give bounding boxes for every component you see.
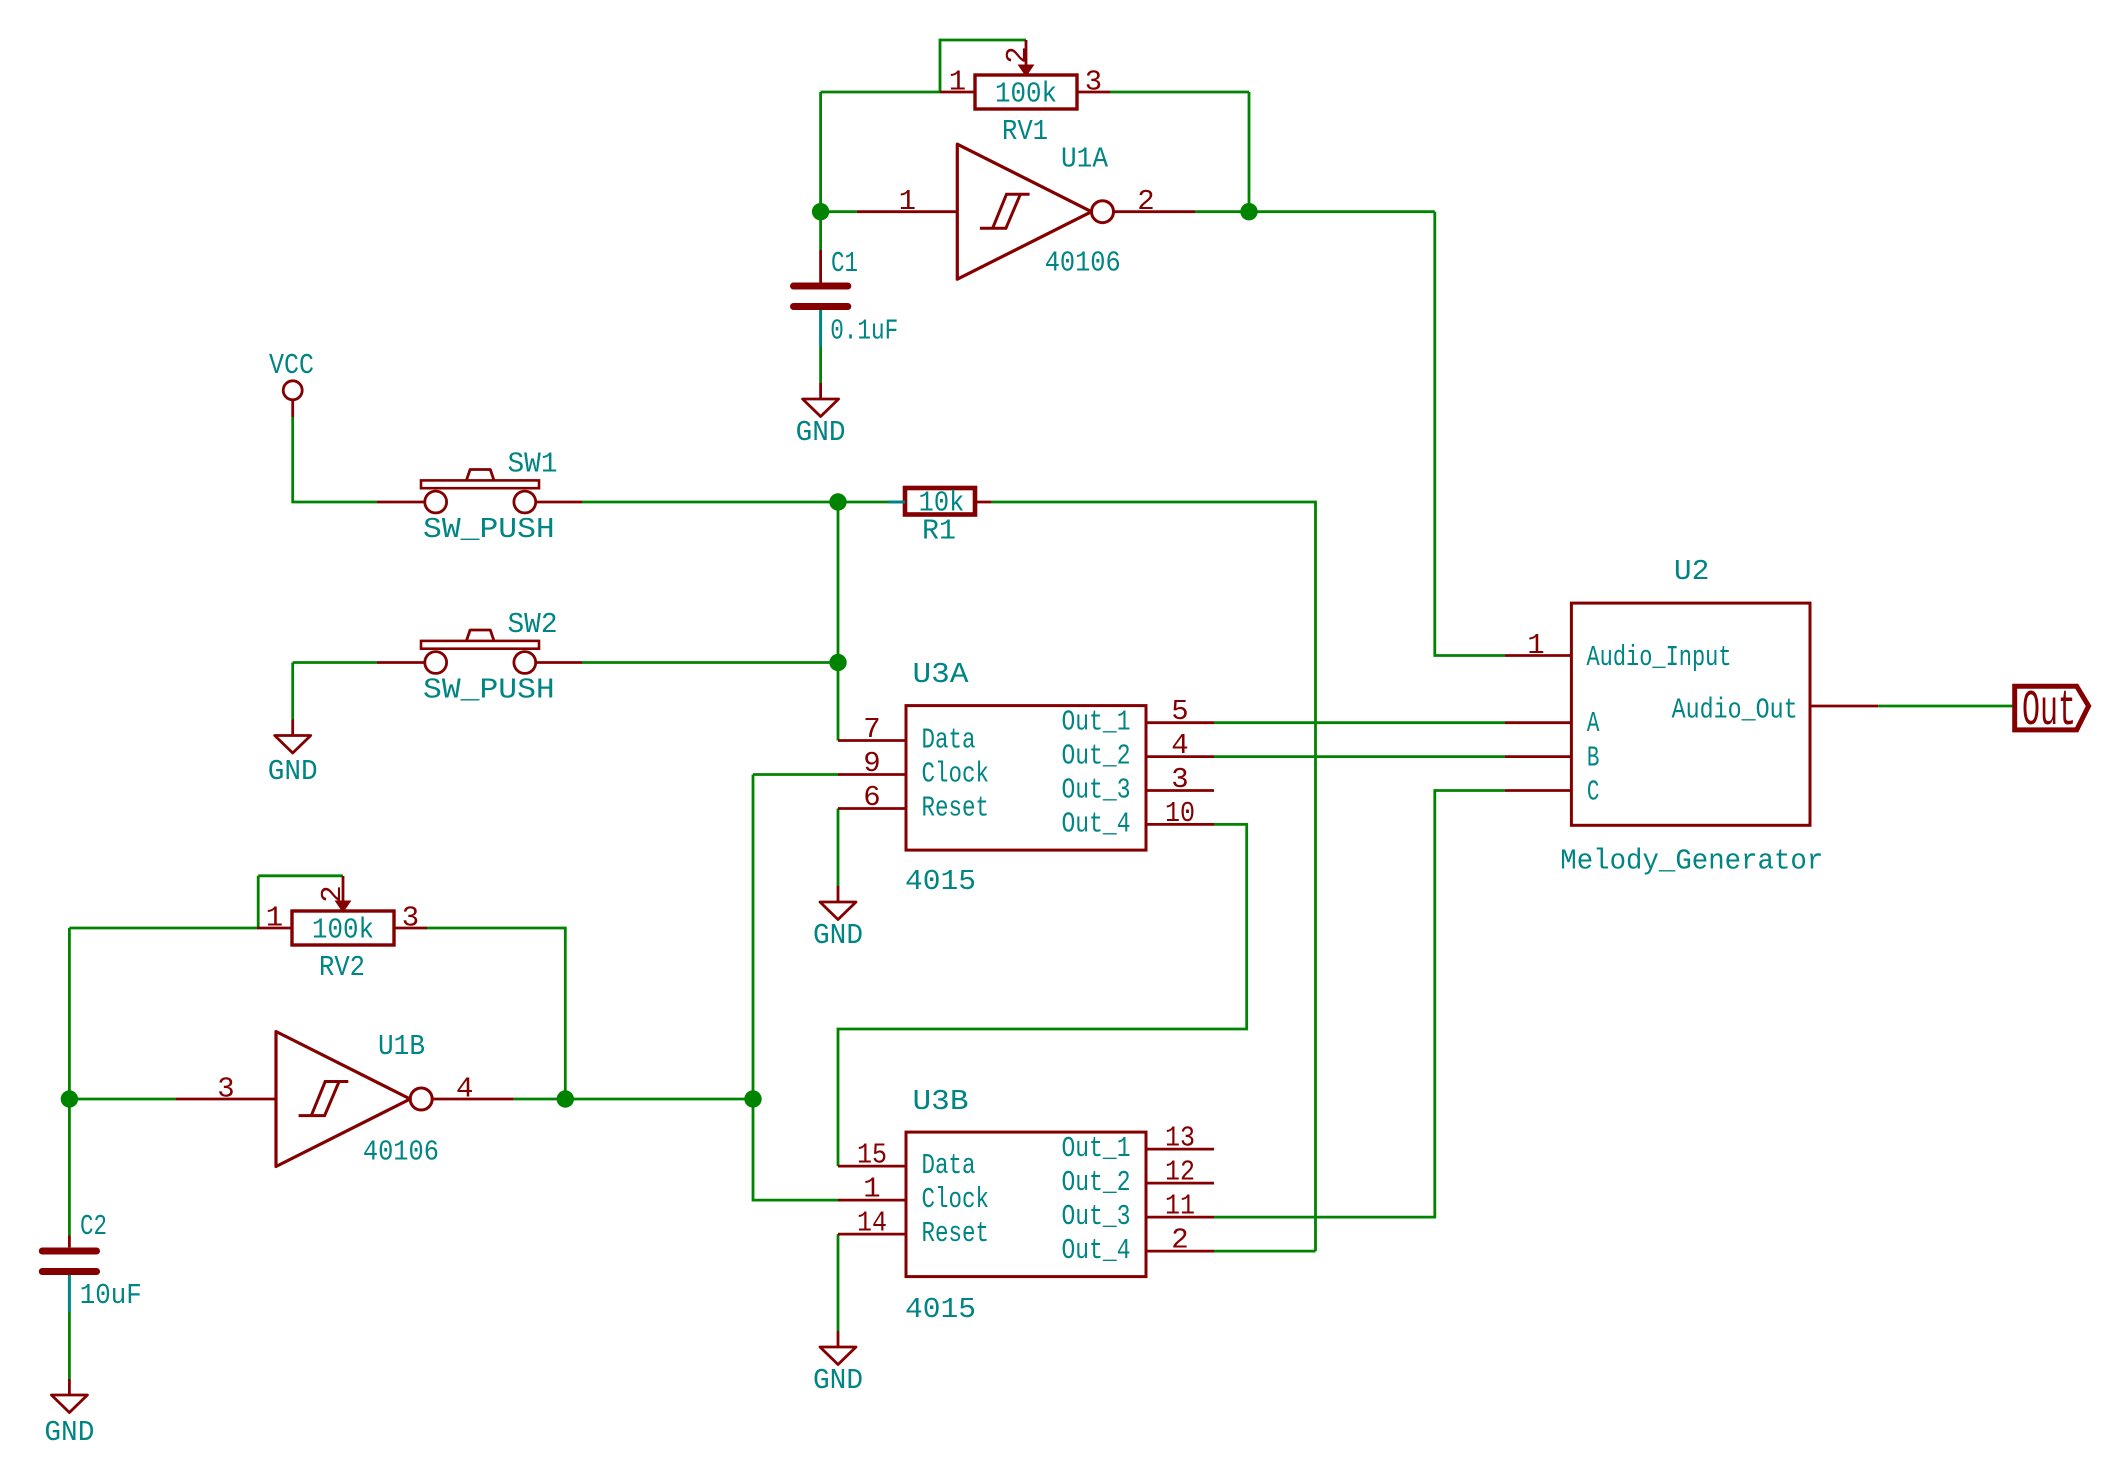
svg-text:B: B <box>1587 742 1600 775</box>
svg-text:1: 1 <box>863 1173 880 1206</box>
svg-text:13: 13 <box>1165 1122 1195 1155</box>
svg-text:Clock: Clock <box>922 758 990 791</box>
svg-text:3: 3 <box>217 1073 234 1106</box>
svg-text:11: 11 <box>1165 1190 1195 1223</box>
svg-text:SW1: SW1 <box>508 448 558 481</box>
svg-text:SW_PUSH: SW_PUSH <box>423 674 555 707</box>
svg-text:1: 1 <box>949 66 966 99</box>
svg-text:GND: GND <box>268 755 318 788</box>
svg-text:2: 2 <box>1171 1224 1188 1257</box>
svg-text:U1A: U1A <box>1061 143 1109 176</box>
svg-text:C1: C1 <box>831 247 858 280</box>
svg-text:Out_2: Out_2 <box>1062 740 1131 773</box>
svg-text:1: 1 <box>1527 629 1544 662</box>
svg-text:10uF: 10uF <box>80 1279 142 1312</box>
svg-text:6: 6 <box>863 781 880 814</box>
svg-text:A: A <box>1587 707 1600 740</box>
svg-text:VCC: VCC <box>269 349 314 382</box>
svg-text:1: 1 <box>266 902 283 935</box>
svg-text:U2: U2 <box>1674 555 1710 588</box>
svg-text:5: 5 <box>1171 695 1188 728</box>
svg-text:12: 12 <box>1165 1156 1195 1189</box>
svg-text:Out_1: Out_1 <box>1062 1132 1131 1165</box>
svg-text:Data: Data <box>922 1149 976 1182</box>
svg-text:100k: 100k <box>312 914 374 947</box>
svg-text:3: 3 <box>402 902 419 935</box>
svg-text:RV2: RV2 <box>319 951 365 984</box>
svg-text:U3B: U3B <box>913 1085 969 1118</box>
svg-text:Audio_Input: Audio_Input <box>1587 641 1732 674</box>
svg-text:GND: GND <box>44 1416 94 1449</box>
svg-text:7: 7 <box>863 713 880 746</box>
svg-text:1: 1 <box>899 185 916 218</box>
svg-text:C: C <box>1587 776 1600 809</box>
svg-text:U1B: U1B <box>378 1030 425 1063</box>
svg-text:40106: 40106 <box>363 1135 439 1168</box>
svg-text:Clock: Clock <box>922 1183 990 1216</box>
svg-text:2: 2 <box>1001 46 1034 63</box>
svg-text:SW_PUSH: SW_PUSH <box>423 513 555 546</box>
svg-text:9: 9 <box>863 747 880 780</box>
svg-text:GND: GND <box>813 1364 863 1397</box>
svg-text:R1: R1 <box>922 515 956 548</box>
svg-text:2: 2 <box>316 885 349 902</box>
svg-text:14: 14 <box>857 1207 887 1240</box>
svg-text:Out_4: Out_4 <box>1062 1234 1131 1267</box>
svg-text:40106: 40106 <box>1045 247 1121 280</box>
svg-text:Out: Out <box>2022 683 2076 740</box>
svg-text:10: 10 <box>1165 797 1195 830</box>
svg-text:Melody_Generator: Melody_Generator <box>1560 844 1823 877</box>
svg-text:4015: 4015 <box>905 865 976 898</box>
svg-text:3: 3 <box>1171 763 1188 796</box>
svg-text:4015: 4015 <box>905 1293 976 1326</box>
svg-text:SW2: SW2 <box>508 608 558 641</box>
svg-text:Out_3: Out_3 <box>1062 1200 1131 1233</box>
svg-text:100k: 100k <box>995 78 1057 111</box>
svg-text:Out_3: Out_3 <box>1062 774 1131 807</box>
svg-text:Audio_Out: Audio_Out <box>1672 693 1798 726</box>
svg-text:15: 15 <box>857 1139 887 1172</box>
svg-text:4: 4 <box>1171 729 1188 762</box>
svg-text:C2: C2 <box>80 1210 107 1243</box>
svg-text:3: 3 <box>1085 66 1102 99</box>
svg-text:Out_2: Out_2 <box>1062 1166 1131 1199</box>
svg-text:Reset: Reset <box>922 792 990 825</box>
svg-text:RV1: RV1 <box>1002 115 1048 148</box>
svg-text:0.1uF: 0.1uF <box>830 314 898 347</box>
svg-text:Out_1: Out_1 <box>1062 706 1131 739</box>
svg-text:Reset: Reset <box>922 1217 990 1250</box>
svg-text:4: 4 <box>456 1073 473 1106</box>
svg-text:GND: GND <box>796 416 846 449</box>
svg-text:Out_4: Out_4 <box>1062 807 1131 840</box>
svg-text:2: 2 <box>1137 185 1154 218</box>
svg-text:Data: Data <box>922 724 976 757</box>
svg-text:U3A: U3A <box>913 658 970 691</box>
svg-text:GND: GND <box>813 919 863 952</box>
